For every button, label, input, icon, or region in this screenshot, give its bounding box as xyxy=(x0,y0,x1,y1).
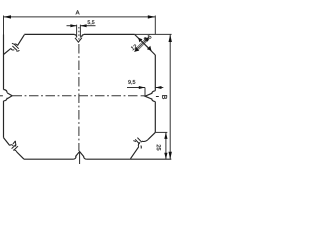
dim A right extension line xyxy=(154,16,156,35)
dim 5,5 text xyxy=(88,20,95,24)
dim 25 text (rotated) xyxy=(157,145,161,151)
horizontal centerline (dash-dot) xyxy=(13,95,139,97)
plate right edge xyxy=(154,55,156,132)
bottom edge keyhole slot xyxy=(74,152,87,165)
top-left corner chamfer (two segments) xyxy=(4,35,25,55)
dim A left arrow xyxy=(4,15,12,18)
vertical centerline (dash-dot) xyxy=(78,27,80,40)
bottom-left corner slot (45deg oblong scribble) xyxy=(10,141,18,152)
dim 9,5 line right segment with arrow xyxy=(155,87,163,89)
double arrow NW-SE (on chamfer) xyxy=(138,38,151,51)
dim 5,5 line left segment with arrow xyxy=(67,25,77,27)
dim 25 bottom arrow xyxy=(164,153,167,160)
dim B top extension line xyxy=(135,33,172,35)
double arrow NE-SW (slot length) xyxy=(135,37,150,52)
left edge keyhole slot xyxy=(0,90,12,101)
top-right detail label 12 xyxy=(131,44,138,50)
dim 25 top arrow xyxy=(164,132,167,139)
dim B top arrow xyxy=(169,35,172,43)
top-right detail label 8,5 xyxy=(143,34,152,42)
dim B text (rotated) xyxy=(162,95,167,99)
dim 5,5 extension walls of top slot xyxy=(77,25,81,38)
bottom-right corner chamfer (two segments) xyxy=(131,132,156,158)
oblong slot outline (NE-SW, perpendicular to chamfer) xyxy=(136,38,148,50)
top-right corner slot detail: crossed dimension arrows xyxy=(135,37,152,52)
bottom-left corner chamfer (two segments) xyxy=(4,138,25,160)
dim B line xyxy=(169,35,171,160)
top edge keyhole slot xyxy=(74,35,84,43)
dim 25 extension line xyxy=(155,131,167,133)
dim 5,5 line right segment with arrow xyxy=(80,25,95,27)
dim B bottom arrow xyxy=(169,152,172,160)
dim A left extension line xyxy=(3,16,5,35)
plate bottom edge xyxy=(24,158,171,160)
dim 9,5 text xyxy=(128,80,135,84)
dim 9,5 line left segment with arrow xyxy=(127,87,145,89)
dim A text xyxy=(76,10,80,14)
right edge keyhole slot xyxy=(145,91,159,102)
top-left corner slot (45deg oblong scribble) xyxy=(11,43,20,51)
bottom-right corner slot (45deg oblong scribble) xyxy=(133,138,148,149)
dim A right arrow xyxy=(148,15,156,18)
plate left edge xyxy=(3,35,5,138)
dimension A line xyxy=(4,16,156,18)
dim 25 line xyxy=(165,132,167,159)
dim 9,5 extension line from right slot tip xyxy=(144,88,146,97)
plate top edge xyxy=(24,33,134,35)
top-right corner chamfer xyxy=(135,35,156,56)
